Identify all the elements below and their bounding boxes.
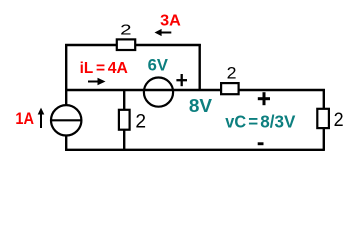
plus sign of vC xyxy=(258,92,270,105)
1A arrow (pointing up) xyxy=(38,108,45,128)
wire: middle horizontal xyxy=(65,89,325,91)
resistor 2 (right vertical) xyxy=(317,109,329,128)
svg-text:3A: 3A xyxy=(160,13,181,30)
svg-text:6V: 6V xyxy=(148,56,169,75)
svg-text:2: 2 xyxy=(227,64,237,83)
wire: left vertical (top corner down to current source) xyxy=(65,44,67,107)
svg-text:2: 2 xyxy=(120,21,131,38)
wire: left vertical (current source to bottom corner) xyxy=(65,134,67,151)
wire: bottom horizontal xyxy=(65,149,325,151)
voltage source 6V (circle) xyxy=(144,78,173,107)
wire: right vertical branch xyxy=(323,89,325,150)
wire: top horizontal xyxy=(65,44,201,46)
svg-text:2: 2 xyxy=(334,110,344,131)
svg-text:1A: 1A xyxy=(15,109,34,128)
svg-text:vC=8/3V: vC=8/3V xyxy=(225,112,295,132)
resistor 2 (middle horizontal) xyxy=(221,83,239,94)
svg-text:8V: 8V xyxy=(189,95,213,116)
wire: right vertical of top loop xyxy=(198,44,200,91)
iL current arrow (pointing right) xyxy=(88,78,106,85)
resistor 2 (middle vertical) xyxy=(119,110,130,130)
wire: middle vertical branch xyxy=(123,90,125,150)
svg-text:2: 2 xyxy=(135,112,146,133)
minus sign of vC xyxy=(258,142,264,145)
3A current arrow (pointing left) xyxy=(155,29,172,36)
current source 1A (circle with bar) xyxy=(51,105,81,135)
plus sign of 6V source xyxy=(176,74,187,86)
resistor 2 (top) xyxy=(117,39,135,50)
svg-text:iL=4A: iL=4A xyxy=(80,60,128,77)
